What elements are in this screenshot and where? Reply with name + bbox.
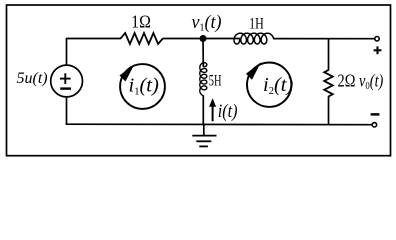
- wire 2ohm branch bottom: [328, 96, 330, 125]
- wire source to top: [66, 39, 68, 66]
- svg-text:1Ω: 1Ω: [131, 12, 151, 32]
- terminal minus: [371, 114, 380, 127]
- svg-text:i(t): i(t): [218, 100, 238, 122]
- mesh current i2(t): [246, 62, 293, 107]
- svg-text:5u(t): 5u(t): [17, 70, 48, 87]
- svg-text:i2(t): i2(t): [263, 74, 293, 97]
- ground: [192, 124, 216, 146]
- wire 5H branch top: [202, 39, 204, 67]
- inductor L1 1H: [234, 33, 274, 44]
- resistor R1 1ohm: [121, 33, 163, 44]
- resistor R2 2ohm: [324, 70, 333, 97]
- inductor L2 5H: [200, 63, 207, 96]
- wire resistor to node: [163, 38, 240, 40]
- mesh current i1(t): [120, 64, 165, 109]
- svg-text:5H: 5H: [209, 71, 222, 89]
- wire inductor to terminal: [273, 38, 375, 40]
- svg-text:v1(t): v1(t): [192, 11, 222, 33]
- svg-text:1H: 1H: [249, 15, 264, 33]
- wire 2ohm branch top: [328, 39, 330, 71]
- current arrow i(t): [209, 98, 216, 121]
- node v1 dot: [200, 35, 207, 42]
- svg-text:2Ω v0(t): 2Ω v0(t): [338, 70, 384, 93]
- wire 5H branch bottom: [202, 95, 204, 125]
- wire bottom rail: [66, 123, 373, 126]
- svg-text:i1(t): i1(t): [129, 74, 159, 97]
- voltage source V1 5u(t): [51, 65, 83, 97]
- terminal plus: [374, 37, 382, 55]
- wire top left: [66, 38, 121, 40]
- wire source bottom: [66, 97, 68, 125]
